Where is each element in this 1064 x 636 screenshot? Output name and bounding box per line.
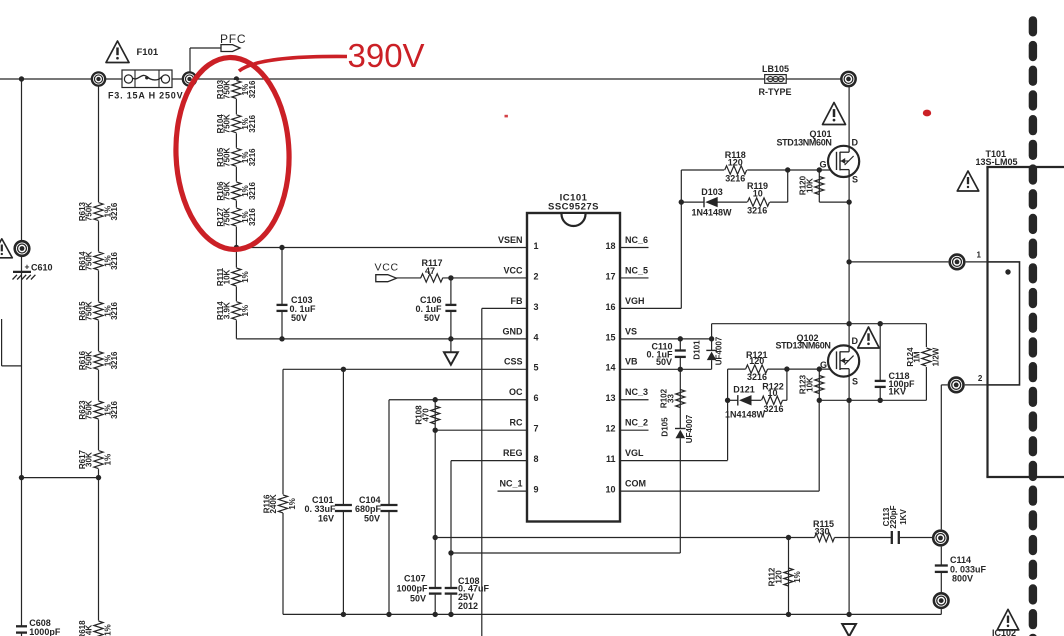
svg-text:10K: 10K bbox=[223, 269, 232, 284]
svg-text:STD13NM60N: STD13NM60N bbox=[776, 340, 831, 350]
svg-text:750K: 750K bbox=[85, 251, 94, 270]
svg-text:3216: 3216 bbox=[110, 351, 119, 369]
svg-text:3.9K: 3.9K bbox=[223, 302, 232, 319]
svg-text:5: 5 bbox=[534, 363, 539, 373]
svg-text:50V: 50V bbox=[291, 313, 307, 323]
svg-text:VGL: VGL bbox=[625, 448, 644, 458]
svg-text:1N4148W: 1N4148W bbox=[691, 208, 732, 218]
svg-text:1KV: 1KV bbox=[899, 509, 908, 525]
svg-text:3216: 3216 bbox=[248, 182, 257, 200]
svg-text:1%: 1% bbox=[103, 624, 112, 636]
svg-text:1: 1 bbox=[534, 241, 539, 251]
svg-text:VCC: VCC bbox=[503, 265, 523, 275]
svg-text:LB105: LB105 bbox=[762, 64, 789, 74]
svg-text:C107: C107 bbox=[404, 574, 426, 584]
svg-text:120: 120 bbox=[775, 570, 784, 584]
svg-text:50V: 50V bbox=[410, 594, 426, 604]
svg-text:3: 3 bbox=[534, 302, 539, 312]
svg-text:FB: FB bbox=[511, 296, 523, 306]
svg-text:1%: 1% bbox=[103, 454, 112, 466]
svg-text:18: 18 bbox=[605, 241, 615, 251]
svg-text:50V: 50V bbox=[364, 514, 380, 524]
svg-text:2: 2 bbox=[534, 271, 539, 281]
svg-text:VS: VS bbox=[625, 326, 637, 336]
svg-text:F101: F101 bbox=[137, 47, 159, 58]
svg-text:2: 2 bbox=[978, 374, 983, 383]
svg-text:8: 8 bbox=[534, 454, 539, 464]
svg-text:10: 10 bbox=[753, 188, 763, 198]
svg-text:SSC9527S: SSC9527S bbox=[548, 202, 599, 213]
svg-text:0. 33uF: 0. 33uF bbox=[304, 504, 336, 514]
svg-text:1: 1 bbox=[977, 250, 982, 259]
svg-text:750K: 750K bbox=[223, 207, 232, 226]
svg-text:750K: 750K bbox=[223, 80, 232, 99]
svg-text:3216: 3216 bbox=[763, 404, 783, 414]
svg-text:UF4007: UF4007 bbox=[714, 336, 723, 365]
svg-text:1KV: 1KV bbox=[889, 387, 907, 397]
svg-text:240K: 240K bbox=[269, 494, 278, 513]
svg-text:330: 330 bbox=[814, 526, 829, 536]
svg-text:7: 7 bbox=[534, 424, 539, 434]
svg-text:+: + bbox=[25, 262, 30, 272]
svg-text:750K: 750K bbox=[223, 148, 232, 167]
svg-text:15: 15 bbox=[605, 332, 615, 342]
svg-text:G: G bbox=[819, 160, 826, 170]
svg-text:220pF: 220pF bbox=[889, 505, 898, 528]
svg-text:9: 9 bbox=[534, 485, 539, 495]
svg-text:3216: 3216 bbox=[747, 206, 767, 216]
svg-text:1%: 1% bbox=[288, 498, 297, 510]
svg-text:750K: 750K bbox=[85, 351, 94, 370]
svg-text:390V: 390V bbox=[348, 37, 425, 74]
svg-text:1%: 1% bbox=[793, 571, 802, 583]
svg-text:1%: 1% bbox=[241, 271, 250, 283]
svg-text:3216: 3216 bbox=[110, 302, 119, 320]
svg-text:D101: D101 bbox=[692, 340, 701, 360]
svg-text:IC102: IC102 bbox=[992, 628, 1016, 636]
svg-text:F3. 15A H 250V: F3. 15A H 250V bbox=[108, 91, 183, 101]
svg-text:S: S bbox=[852, 174, 858, 184]
svg-text:4: 4 bbox=[534, 332, 539, 342]
svg-text:D105: D105 bbox=[660, 417, 669, 437]
svg-text:750K: 750K bbox=[85, 301, 94, 320]
svg-text:10K: 10K bbox=[805, 178, 814, 193]
svg-text:3216: 3216 bbox=[110, 401, 119, 419]
svg-text:33: 33 bbox=[666, 394, 675, 403]
svg-text:4K: 4K bbox=[85, 625, 94, 635]
svg-text:47: 47 bbox=[425, 266, 435, 276]
svg-text:120: 120 bbox=[749, 356, 764, 366]
svg-text:17: 17 bbox=[605, 271, 615, 281]
svg-text:680pF: 680pF bbox=[355, 504, 382, 514]
svg-text:GND: GND bbox=[503, 326, 524, 336]
svg-text:D: D bbox=[852, 137, 859, 147]
svg-text:CSS: CSS bbox=[504, 357, 523, 367]
svg-text:RC: RC bbox=[510, 418, 523, 428]
svg-text:3216: 3216 bbox=[725, 173, 745, 183]
svg-text:750K: 750K bbox=[85, 400, 94, 419]
svg-text:16V: 16V bbox=[318, 514, 334, 524]
svg-text:R-TYPE: R-TYPE bbox=[759, 87, 792, 97]
svg-text:12: 12 bbox=[605, 424, 615, 434]
svg-text:1/2W: 1/2W bbox=[932, 347, 941, 366]
svg-text:750K: 750K bbox=[223, 181, 232, 200]
svg-text:UF4007: UF4007 bbox=[685, 414, 694, 443]
svg-text:D121: D121 bbox=[733, 385, 755, 395]
svg-text:NC_6: NC_6 bbox=[625, 235, 648, 245]
svg-text:11: 11 bbox=[606, 454, 616, 464]
svg-text:G: G bbox=[820, 360, 827, 370]
svg-text:3216: 3216 bbox=[248, 208, 257, 226]
svg-text:D103: D103 bbox=[701, 187, 723, 197]
svg-text:750K: 750K bbox=[223, 114, 232, 133]
svg-text:STD13NM60N: STD13NM60N bbox=[777, 137, 832, 147]
svg-text:750K: 750K bbox=[85, 202, 94, 221]
svg-text:VB: VB bbox=[625, 357, 638, 367]
svg-text:120: 120 bbox=[728, 158, 743, 168]
svg-text:3216: 3216 bbox=[248, 148, 257, 166]
svg-text:10K: 10K bbox=[805, 377, 814, 392]
svg-text:3216: 3216 bbox=[248, 114, 257, 132]
svg-text:30K: 30K bbox=[85, 452, 94, 467]
svg-text:16: 16 bbox=[605, 302, 615, 312]
svg-text:VCC: VCC bbox=[375, 262, 399, 274]
svg-text:VSEN: VSEN bbox=[498, 235, 523, 245]
svg-text:COM: COM bbox=[625, 479, 646, 489]
svg-text:6: 6 bbox=[534, 393, 539, 403]
svg-text:2012: 2012 bbox=[458, 601, 478, 611]
svg-text:1000pF: 1000pF bbox=[29, 627, 61, 636]
svg-text:800V: 800V bbox=[952, 573, 973, 583]
svg-text:13S-LM05: 13S-LM05 bbox=[976, 157, 1018, 167]
svg-text:3216: 3216 bbox=[248, 80, 257, 98]
svg-text:50V: 50V bbox=[424, 313, 440, 323]
svg-text:C610: C610 bbox=[31, 263, 53, 273]
svg-text:14: 14 bbox=[605, 363, 615, 373]
svg-text:D: D bbox=[852, 336, 859, 346]
svg-text:NC_2: NC_2 bbox=[625, 418, 648, 428]
svg-text:3216: 3216 bbox=[110, 252, 119, 270]
svg-text:1000pF: 1000pF bbox=[396, 584, 428, 594]
svg-text:1%: 1% bbox=[241, 305, 250, 317]
svg-text:REG: REG bbox=[503, 448, 523, 458]
svg-text:13: 13 bbox=[605, 393, 615, 403]
svg-text:1M: 1M bbox=[913, 351, 922, 362]
svg-text:10: 10 bbox=[605, 485, 615, 495]
svg-text:VGH: VGH bbox=[625, 296, 645, 306]
svg-text:1N4148W: 1N4148W bbox=[725, 409, 766, 419]
svg-text:NC_3: NC_3 bbox=[625, 387, 648, 397]
svg-text:50V: 50V bbox=[656, 357, 672, 367]
svg-text:S: S bbox=[852, 377, 858, 387]
svg-text:470: 470 bbox=[421, 408, 430, 422]
svg-text:3216: 3216 bbox=[110, 202, 119, 220]
svg-text:10: 10 bbox=[767, 388, 777, 398]
svg-text:NC_5: NC_5 bbox=[625, 265, 648, 275]
svg-text:PFC: PFC bbox=[220, 32, 246, 46]
svg-text:NC_1: NC_1 bbox=[499, 479, 522, 489]
svg-text:OC: OC bbox=[509, 387, 523, 397]
